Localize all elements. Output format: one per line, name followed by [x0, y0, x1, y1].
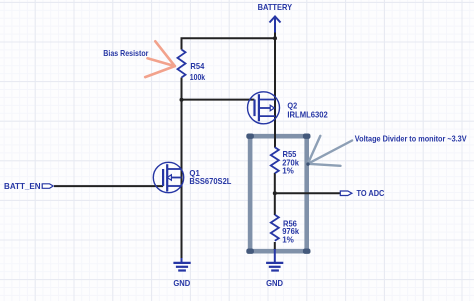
svg-text:BATTERY: BATTERY [258, 2, 293, 12]
wire BATT_EN to Q1 gate [54, 185, 163, 187]
transistor Q2 P-MOSFET [248, 92, 280, 124]
port BATT_EN [42, 184, 53, 189]
wire Q2 gate from R54 junction [182, 99, 255, 101]
highlight box around voltage divider R55/R56 [246, 134, 310, 254]
wire divider tap to TO ADC port [275, 192, 341, 194]
svg-text:Voltage Divider to monitor ~3.: Voltage Divider to monitor ~3.3V [355, 134, 467, 144]
port TO ADC [340, 191, 352, 196]
resistor R55 [271, 147, 279, 173]
svg-text:GND: GND [266, 278, 283, 288]
svg-text:100k: 100k [190, 72, 206, 82]
annotation arrows to bias resistor [145, 41, 175, 77]
junction dot at R54 / Q2 gate node [180, 98, 184, 102]
ground right under R56 [266, 249, 283, 271]
junction dot at divider tap node [273, 191, 277, 195]
resistor R56 [271, 215, 279, 241]
ground left under Q1 [173, 258, 190, 271]
wire BATTERY vertical down through Q2 source/drain to R55 [274, 32, 276, 148]
wire top horizontal from R54 to BATTERY line [181, 37, 276, 39]
annotation arrows to voltage divider [308, 136, 352, 166]
annotation arrow tip dot [306, 162, 309, 165]
svg-text:R54: R54 [190, 61, 204, 71]
svg-text:1%: 1% [282, 166, 294, 176]
resistor R54 [178, 50, 186, 78]
svg-text:GND: GND [173, 278, 190, 288]
wire from R54 through Q1 drain/source down to left GND [181, 78, 183, 259]
svg-text:BSS670S2L: BSS670S2L [189, 176, 231, 186]
transistor Q1 N-MOSFET [153, 162, 183, 192]
junction dot at battery tee node [273, 36, 277, 40]
svg-text:1%: 1% [282, 235, 294, 245]
wire R56 to right GND [274, 242, 276, 250]
svg-text:Bias Resistor: Bias Resistor [103, 48, 149, 58]
power port arrow BATTERY [270, 17, 281, 33]
wire from top wire down to R54 [181, 38, 183, 49]
wire between R55 and R56 [274, 173, 276, 215]
svg-text:TO ADC: TO ADC [357, 188, 385, 198]
svg-text:IRLML6302: IRLML6302 [287, 110, 328, 120]
svg-text:BATT_EN: BATT_EN [4, 181, 41, 191]
